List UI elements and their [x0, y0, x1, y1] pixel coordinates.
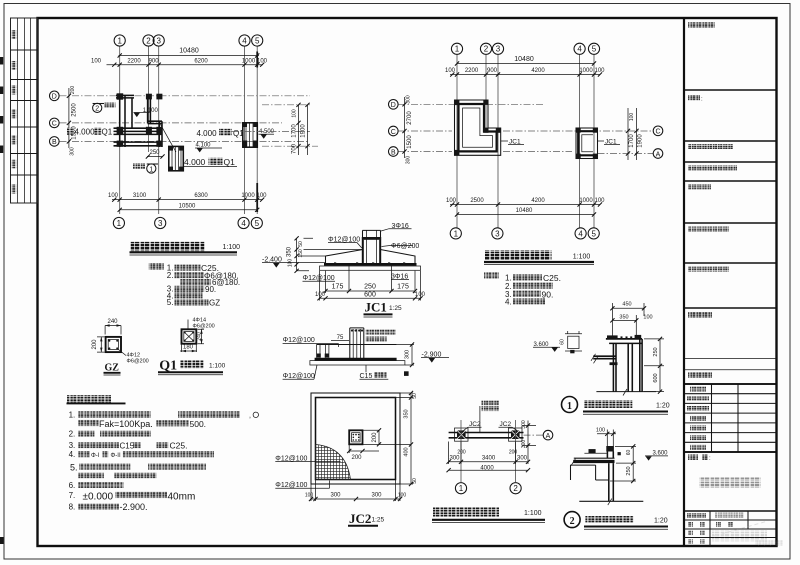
parapet detail 1: top dim 450 [610, 302, 646, 340]
gate plan: level mark 1.100 inside plan [134, 108, 159, 117]
side gate plan: dims 200 over footings [457, 450, 517, 456]
binding punch marks at sheet left edge [0, 57, 4, 544]
title block: bottom info table grid [684, 511, 777, 546]
svg-text:Φ-II: Φ-II [111, 453, 121, 459]
svg-text:240: 240 [196, 332, 202, 341]
foundation notes: item 6 [69, 481, 124, 490]
svg-text:4200: 4200 [531, 68, 545, 74]
svg-text:100: 100 [446, 198, 457, 204]
parapet detail 2: pipe blob on slab [584, 449, 606, 453]
svg-text:1700: 1700 [292, 124, 298, 138]
gate plan: axis grid lines vertical [120, 46, 258, 214]
gate plan: C axis line right segment [232, 131, 310, 133]
GZ detail: top dim 240 [105, 319, 121, 335]
foundation plan: L-footing corner columns [454, 100, 501, 156]
JC1 detail: bottom label Φ12@100 [303, 275, 336, 282]
Q1 section detail: wall square [182, 329, 197, 343]
svg-text:180: 180 [183, 345, 194, 351]
parapet detail 1: label circle 1 and title [562, 397, 670, 415]
svg-text:90.: 90. [542, 289, 554, 299]
svg-text:Φ6@200: Φ6@200 [127, 359, 149, 365]
gate plan: wall top band (axis D) [116, 95, 134, 98]
side gate plan: right small dims 300 [521, 420, 536, 450]
svg-text:100: 100 [91, 59, 102, 65]
svg-text:100: 100 [594, 198, 605, 204]
JC1 detail: bottom rebar marks [334, 262, 405, 291]
title block: signature table grid [684, 384, 777, 452]
foundation plan: overall top dim 10480 [455, 56, 596, 66]
JC1 detail: title JC1 1:25 [364, 300, 403, 318]
svg-text:2200: 2200 [465, 68, 479, 74]
svg-text:500.: 500. [190, 419, 207, 429]
svg-text:1: 1 [454, 229, 459, 238]
svg-text:1: 1 [567, 401, 572, 412]
gate plan: bottom dimension chain 100/3100/6300/1000/100 [108, 193, 267, 202]
svg-text:JC2: JC2 [500, 421, 512, 428]
parapet detail 2: top dim 100 [596, 428, 616, 446]
foundation plan notes: item 4 [505, 298, 545, 307]
title block: drawing name label [688, 455, 711, 463]
svg-text:2500: 2500 [72, 103, 78, 117]
svg-text:3Φ16: 3Φ16 [392, 223, 409, 230]
gate plan: column GZ at 3/B [156, 141, 162, 147]
svg-text:2.: 2. [167, 271, 174, 280]
foundation plan: JC1 label left footing [501, 139, 524, 146]
svg-text:350: 350 [404, 409, 410, 418]
JC2 section: footing slab thick band [315, 358, 397, 361]
svg-text:6.: 6. [69, 481, 76, 490]
JC1 detail: stirrup label Φ12@100 [328, 236, 362, 248]
svg-text:3: 3 [158, 219, 163, 228]
svg-text:2500: 2500 [470, 198, 484, 204]
svg-text:10480: 10480 [179, 48, 199, 55]
svg-text:900: 900 [149, 59, 160, 65]
svg-text:C: C [655, 129, 660, 136]
svg-text:1:100: 1:100 [573, 254, 591, 261]
svg-text:700: 700 [292, 143, 298, 154]
foundation notes: item 7 [69, 491, 196, 503]
svg-text:200: 200 [372, 432, 378, 443]
gate plan: column GZ at 1/C [117, 127, 124, 135]
foundation plan notes: item 3 [505, 289, 553, 299]
binding strip row labels [12, 30, 16, 194]
svg-text:4000: 4000 [480, 466, 494, 472]
svg-text:D: D [52, 94, 57, 101]
svg-text:600: 600 [364, 291, 376, 298]
foundation plan: C-footing thick band [578, 131, 595, 155]
svg-text:50: 50 [298, 241, 304, 247]
svg-text:100: 100 [108, 193, 119, 199]
title block: component seal label [688, 267, 729, 272]
gate plan: axis circle 3 bottom [155, 217, 166, 228]
JC2 section: column with rebar [350, 328, 364, 359]
gate plan: wall bottom band (axis B) [114, 142, 163, 146]
gate plan: beam section detail at opening [169, 146, 184, 170]
gate plan: axis line D horizontal [60, 95, 311, 97]
JC1 detail: dim 100/600/100 [315, 271, 426, 301]
foundation plan notes: item 2 [505, 282, 553, 291]
JC2 section: bottom label Φ12@100 [283, 365, 317, 380]
svg-text:100: 100 [643, 315, 652, 321]
gate plan: axis circle 4 bottom [238, 217, 249, 228]
svg-text:100: 100 [256, 193, 267, 199]
svg-text:1:20: 1:20 [654, 518, 668, 525]
svg-text:JC1: JC1 [365, 300, 387, 315]
svg-text:2700: 2700 [407, 111, 413, 125]
parapet detail 2: label circle 2 and title [564, 512, 668, 530]
foundation plan: axis circle 4 bottom [575, 228, 586, 239]
JC2 plan: rebar hatch quarter circle [316, 445, 351, 480]
foundation plan: L-footing outer outline [455, 100, 501, 155]
foundation plan notes: item 1 [505, 273, 561, 283]
gate plan: overall top dimension 10480 [118, 48, 260, 58]
svg-text:GZ: GZ [105, 363, 120, 374]
foundation plan: top dim chain 100/2200/900/4200/1000/100 [445, 68, 605, 77]
svg-text:3: 3 [156, 36, 161, 45]
svg-text:B: B [52, 139, 57, 146]
title block: discipline label [688, 95, 703, 103]
JC1 detail: left vertical dim chain [287, 236, 363, 273]
svg-text:2: 2 [95, 106, 99, 113]
svg-text:1000: 1000 [241, 193, 255, 199]
gate plan: level mark 4.500 right [259, 129, 275, 139]
gate plan: wall middle band (axis C) [114, 128, 163, 134]
gate plan: axis line B horizontal [60, 140, 310, 142]
parapet detail 1: ground line with break [596, 389, 656, 396]
foundation plan: axis circle 2 top [480, 43, 491, 54]
Q1 section detail: rebar leader labels top [188, 318, 215, 330]
svg-text:60: 60 [560, 339, 566, 345]
svg-text:,: , [249, 412, 251, 419]
svg-text:1.: 1. [69, 410, 76, 419]
title block: design unit label [688, 22, 715, 28]
title block: review approval unit label [688, 144, 733, 149]
side gate plan: dim chain 300/3400/300 [447, 442, 531, 465]
foundation notes: item 1 line 2 [78, 419, 206, 429]
svg-text:5: 5 [591, 229, 596, 238]
svg-text:1:100: 1:100 [209, 363, 226, 370]
svg-text:6@180.: 6@180. [212, 278, 240, 287]
gate plan notes: item 4 [167, 291, 203, 300]
gate plan: axis circle 1 top [114, 35, 125, 46]
svg-text:2: 2 [146, 36, 151, 45]
foundation plan: axis circle B left [389, 147, 399, 157]
gate plan: wall right segment lower [159, 121, 162, 147]
JC2 section: bedding label C15 [360, 365, 389, 380]
JC2 section: left column outline [317, 345, 329, 358]
gate plan: wall left band triple line [120, 94, 132, 148]
gate plan: column GZ at 2/D [146, 94, 152, 100]
JC1 detail: dim chain 175/250/175 [323, 271, 417, 293]
JC2 section: footing top line [317, 344, 397, 346]
svg-text:Fak=100Kpa.: Fak=100Kpa. [99, 419, 153, 429]
svg-text:60: 60 [626, 450, 632, 456]
svg-text:100: 100 [257, 59, 268, 65]
title block: drawing name text (gray) [699, 478, 761, 488]
title block: termite control seal label [688, 227, 729, 232]
svg-text:4.: 4. [69, 450, 76, 459]
side gate plan: right footing JC2 [509, 428, 523, 441]
svg-text:3400: 3400 [482, 456, 496, 462]
svg-text:10480: 10480 [514, 56, 534, 63]
svg-text:3: 3 [495, 229, 500, 238]
title block outer frame [684, 18, 777, 546]
foundation plan: JC1 label right footing [598, 139, 621, 146]
svg-text:JC2: JC2 [349, 511, 371, 526]
svg-text:5: 5 [592, 45, 597, 54]
svg-text:D: D [391, 102, 396, 109]
JC2 plan: column dim 200 bottom [347, 444, 379, 461]
svg-text:Φ6@200: Φ6@200 [391, 243, 419, 250]
svg-text:C25.: C25. [543, 273, 561, 283]
parapet detail 2: roof slab line [574, 457, 615, 459]
parapet detail 2: step outline below slab [570, 463, 613, 501]
JC2 section: anchorage note text [366, 330, 396, 342]
svg-text:10480: 10480 [516, 208, 533, 214]
svg-text:Q1: Q1 [224, 157, 236, 167]
title block: review document no label [688, 166, 737, 171]
JC2 plan: inner square [316, 398, 396, 480]
gate plan: column GZ at 2/C [146, 127, 152, 135]
foundation plan: bottom overall dim 10480 [455, 208, 596, 217]
foundation notes: item 5 line 2 [78, 473, 157, 479]
gate plan: axis circle 5 top [252, 35, 263, 46]
gate plan: axis circle 4 top [239, 35, 250, 46]
svg-text:200: 200 [92, 339, 98, 350]
foundation plan: axis circle 3 top [492, 43, 503, 54]
title block: construction unit label [688, 373, 712, 379]
svg-text:A: A [546, 433, 551, 440]
svg-text:-2.900.: -2.900. [120, 502, 148, 512]
gate plan: axis circle 2 top [143, 35, 154, 46]
parapet detail 1: dim 350 100 [610, 315, 652, 339]
JC1 detail: column stub [362, 230, 381, 264]
JC1 detail: tie label Φ6@200 [382, 243, 420, 250]
svg-text:50: 50 [412, 478, 418, 484]
gate plan: column GZ at 1/B [117, 141, 124, 147]
svg-text:6300: 6300 [194, 193, 208, 199]
svg-text:90.: 90. [205, 285, 216, 294]
svg-text:5.: 5. [167, 298, 174, 307]
svg-text:40mm: 40mm [168, 491, 196, 502]
svg-text:250: 250 [626, 466, 632, 475]
svg-text:4.000: 4.000 [184, 157, 206, 167]
svg-text:300: 300 [521, 440, 527, 449]
svg-text:Φ12@100: Φ12@100 [283, 373, 315, 380]
svg-text:A: A [656, 151, 661, 158]
gate plan notes: item 5 [167, 298, 220, 307]
svg-text:2: 2 [513, 484, 518, 493]
JC2 section: bedding course [310, 361, 405, 365]
foundation notes: item 2 [69, 430, 151, 439]
foundation notes: item 3 [69, 440, 188, 450]
foundation plan: axis line B horizontal segments [399, 152, 654, 154]
foundation plan: axis circle C right [653, 126, 663, 136]
foundation notes: item 8 [69, 502, 148, 512]
gate plan: ext line right top [262, 105, 318, 146]
foundation plan: axis line C horizontal segments [399, 130, 654, 132]
gate plan: level mark 4.100 [195, 143, 222, 153]
side gate plan: axis circle A [543, 430, 553, 440]
gate plan: pier column detail at axis 4-5 [243, 123, 258, 147]
foundation plan: axis circle 1 bottom [450, 228, 461, 239]
side gate plan: beam note leader [480, 401, 499, 433]
svg-text:JC1: JC1 [605, 139, 617, 146]
JC2 plan: label Φ12@100 bottom [275, 481, 329, 490]
foundation plan notes: 说明 heading [484, 273, 499, 279]
foundation plan: bottom dim chain 100/2500/4200/1000/100 [446, 198, 605, 207]
svg-text:600: 600 [653, 373, 659, 382]
JC1 detail: left level mark -2.400 [262, 256, 326, 267]
Q1 section detail: bottom dim 180 [180, 344, 197, 352]
gate plan: axis circle C left [50, 118, 60, 128]
side gate plan title: 边门基础平面布置图 1:100 [432, 508, 545, 523]
parapet detail 1: coping top line with blobs [606, 335, 642, 339]
svg-text:250: 250 [653, 347, 659, 356]
svg-text:100: 100 [415, 292, 426, 298]
svg-text:300: 300 [517, 456, 528, 462]
foundation plan: axis circle 4 top [574, 43, 585, 54]
GZ detail: column square [106, 337, 121, 352]
svg-text:4: 4 [242, 36, 247, 45]
svg-text:4200: 4200 [531, 198, 545, 204]
GZ detail: left dim 200 [92, 337, 105, 352]
svg-text:300: 300 [70, 147, 76, 156]
foundation notes: item 5 line 1 [70, 462, 206, 472]
title block: project name label [688, 312, 712, 318]
JC2 plan: outer square [311, 393, 400, 484]
parapet detail 1: inner wall verticals [613, 343, 616, 391]
side gate plan: JC2 label left [464, 421, 482, 431]
svg-text:200: 200 [70, 86, 76, 95]
svg-text:4: 4 [577, 45, 582, 54]
svg-text:400: 400 [404, 447, 410, 456]
gate plan: axis circle B left [50, 137, 60, 147]
foundation notes: item 1 line 1 [69, 410, 259, 419]
svg-text:240: 240 [107, 319, 118, 325]
svg-text:350: 350 [287, 246, 293, 257]
svg-text:1:20: 1:20 [656, 403, 670, 410]
svg-text:2: 2 [484, 45, 489, 54]
JC1 detail: rebar label 3Φ16 top [381, 223, 412, 231]
svg-text:1: 1 [149, 166, 153, 173]
foundation plan: left vertical dim chain [402, 95, 413, 164]
svg-text:4: 4 [578, 229, 583, 238]
svg-text:175: 175 [332, 284, 344, 291]
side gate plan: ground beam double line [449, 433, 524, 438]
svg-text:2: 2 [570, 516, 575, 527]
foundation plan: axis circle 5 bottom [588, 228, 599, 239]
gate plan notes: item 3 [167, 285, 216, 295]
svg-text:6200: 6200 [194, 59, 208, 65]
svg-text:100: 100 [288, 259, 294, 268]
foundation plan: axis circle 1 top [451, 43, 462, 54]
JC2 section: right dim 300 [397, 342, 415, 367]
gate plan notes: item 2 [167, 271, 239, 280]
foundation plan: axis line D horizontal [399, 103, 546, 105]
parapet detail 1: right dim chain [644, 337, 664, 394]
gate plan: column GZ at 1/D [117, 93, 124, 99]
svg-text:JC2: JC2 [469, 421, 481, 428]
svg-text:1900: 1900 [638, 134, 644, 148]
Q1 section detail: right dim 240 [196, 329, 204, 343]
svg-text:3100: 3100 [133, 193, 147, 199]
gate plan: column GZ at 3/D [156, 94, 162, 100]
svg-text:C25.: C25. [170, 440, 188, 450]
foundation plan: axis circle A right [653, 149, 663, 159]
parapet detail 1: outer wall verticals [628, 339, 642, 392]
foundation plan title: 大门基础平面布置图 1:100 [484, 250, 594, 265]
gate plan: wall right segment upper [148, 95, 151, 123]
svg-text:1: 1 [117, 219, 122, 228]
svg-text:100: 100 [398, 493, 407, 499]
JC1 detail: footing trapezoid body [324, 250, 417, 265]
foundation plan: axis circle D left [389, 100, 399, 110]
side gate plan: JC2 label right [499, 421, 518, 431]
svg-text:300: 300 [406, 156, 412, 165]
svg-text:300: 300 [371, 493, 382, 499]
foundation plan: C-footing outer outline [576, 128, 598, 159]
foundation plan: C-footing inner thin line [582, 135, 593, 152]
JC2 plan: column dim 200 right [363, 428, 382, 446]
side gate plan: left footing JC2 [455, 428, 469, 441]
foundation plan: vertical axis lines [457, 54, 594, 228]
foundation plan: axis circle C left [389, 126, 399, 136]
svg-text:300: 300 [330, 493, 341, 499]
svg-text:150: 150 [298, 249, 304, 258]
binding strip table frame [11, 18, 38, 203]
svg-text:Φ12@100: Φ12@100 [283, 337, 315, 344]
side gate plan: axis circle 2 bottom [510, 483, 521, 494]
parapet detail 1: second top line [609, 342, 642, 344]
gate plan: leader diagonal to beam section [161, 125, 177, 153]
gate plan: top dimension chain 100/2200/900/6200/1000/100 [91, 59, 268, 67]
gate plan: axis circle 3 top [153, 35, 164, 46]
svg-text:100: 100 [315, 292, 326, 298]
side gate plan: axis circle 1 bottom [455, 483, 466, 494]
svg-text:C: C [391, 129, 396, 136]
svg-text:4.000: 4.000 [75, 127, 96, 136]
JC2 plan: right dim chain [363, 391, 419, 486]
foundation plan: L-footing inner thin line [463, 108, 493, 147]
gate plan: section mark circle 2 [93, 103, 116, 113]
svg-text:1700: 1700 [629, 134, 635, 148]
svg-text:1: 1 [117, 36, 122, 45]
svg-text:300: 300 [406, 95, 412, 104]
svg-text:1:25: 1:25 [372, 517, 385, 524]
svg-text:1:100: 1:100 [223, 244, 241, 251]
foundation plan: axis circle 5 top [588, 43, 599, 54]
svg-text:10500: 10500 [179, 203, 196, 209]
foundation notes: item 4 [69, 450, 214, 459]
JC2 section: small marker square [404, 371, 409, 376]
gate plan: right vertical dim chain [292, 103, 310, 155]
svg-text:50: 50 [412, 393, 418, 399]
foundation plan: right vertical dim chain [626, 108, 644, 160]
svg-text:1000: 1000 [242, 59, 256, 65]
gate plan: axis circle 1 bottom [113, 217, 124, 228]
svg-text:350: 350 [619, 315, 628, 321]
side gate plan: overall dim 4000 [447, 466, 531, 473]
gate plan: bottom overall dim 10500 [118, 203, 260, 212]
title block: city archive label [688, 185, 711, 190]
svg-text:2.: 2. [69, 430, 76, 439]
gate plan: wall step band [148, 121, 162, 123]
gate plan notes: item 1 [167, 263, 219, 273]
svg-text:JC1: JC1 [509, 139, 521, 146]
svg-text:1.100: 1.100 [143, 108, 159, 114]
Q1 section title: Q1 剖面图 1:100 [158, 359, 226, 375]
